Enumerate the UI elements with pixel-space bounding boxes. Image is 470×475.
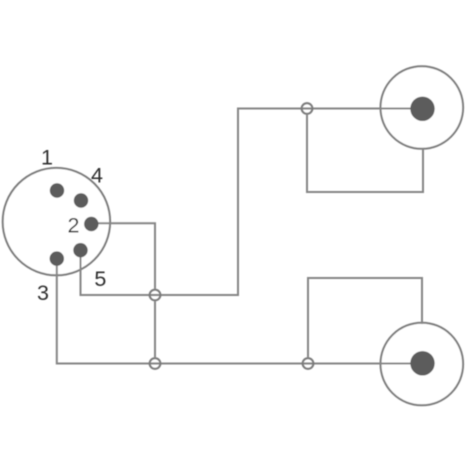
wire pin3 to bottom RCA center pin: [57, 259, 422, 364]
wire node J1 to top RCA shell: [307, 115, 423, 192]
top RCA center pin: [410, 97, 434, 121]
node J4: [303, 358, 314, 369]
svg-text:2: 2: [68, 213, 80, 237]
svg-text:5: 5: [94, 267, 106, 291]
pin 3: [50, 251, 64, 265]
node J2: [150, 290, 161, 301]
svg-text:4: 4: [91, 163, 103, 187]
bottom RCA center pin: [410, 351, 434, 375]
wire node J2 to node J3: [154, 301, 156, 357]
node J3: [150, 358, 161, 369]
wire pin5 to node J2: [81, 250, 156, 295]
svg-text:3: 3: [37, 281, 49, 305]
DIN connector body: [3, 168, 110, 275]
node J1: [302, 103, 313, 114]
svg-text:1: 1: [41, 146, 53, 170]
wire node J4 to bottom RCA shell: [308, 278, 422, 357]
pin 5: [73, 243, 87, 257]
wire node J2 to top RCA center pin: [155, 109, 422, 296]
bottom RCA connector body: [381, 323, 464, 406]
pin 4: [74, 193, 88, 207]
pin 2: [84, 217, 98, 231]
top RCA connector body: [381, 66, 464, 149]
pin 1: [50, 183, 64, 197]
wire pin2 to node J2: [91, 223, 155, 289]
